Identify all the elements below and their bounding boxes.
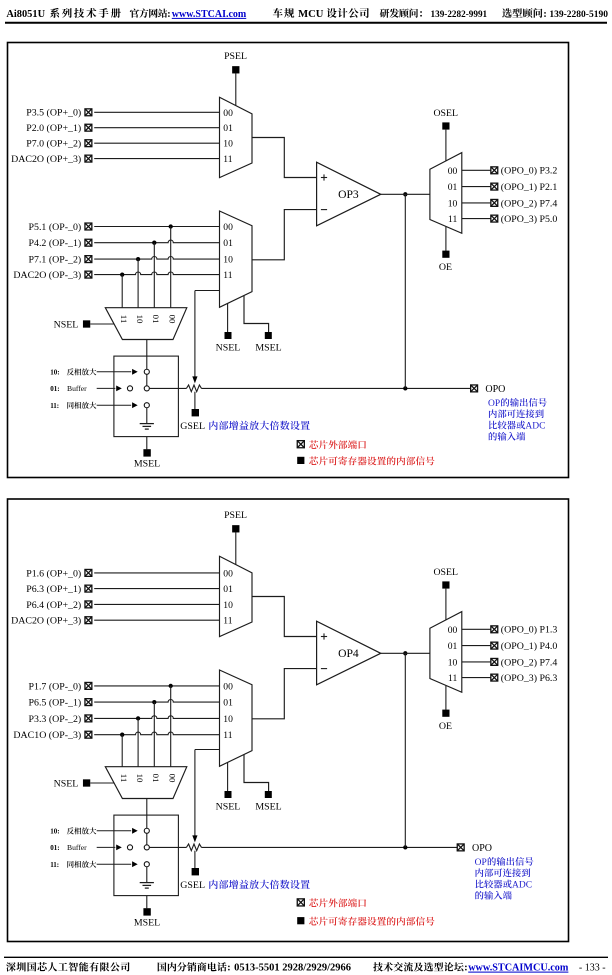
svg-text:NSEL: NSEL: [216, 342, 241, 353]
svg-text:P1.6 (OP+_0): P1.6 (OP+_0): [26, 568, 81, 579]
svg-text:PSEL: PSEL: [224, 510, 247, 521]
svg-text:11:: 11:: [50, 861, 59, 869]
svg-text:11: 11: [223, 270, 232, 281]
svg-text:00: 00: [223, 222, 233, 233]
svg-text:DAC2O (OP+_3): DAC2O (OP+_3): [11, 616, 81, 627]
svg-text:DAC2O (OP-_3): DAC2O (OP-_3): [13, 270, 81, 281]
svg-text:P7.1 (OP-_2): P7.1 (OP-_2): [29, 255, 82, 266]
svg-text:OE: OE: [439, 721, 452, 732]
svg-text:(OPO_3) P6.3: (OPO_3) P6.3: [501, 673, 558, 684]
svg-text:11: 11: [223, 616, 232, 627]
svg-text:01:: 01:: [50, 385, 59, 393]
svg-text:(OPO_2) P7.4: (OPO_2) P7.4: [501, 657, 558, 668]
svg-text:OSEL: OSEL: [433, 108, 458, 119]
svg-text:10: 10: [223, 714, 233, 725]
svg-text:01: 01: [223, 698, 233, 709]
svg-text:11: 11: [448, 673, 457, 684]
svg-text:00: 00: [167, 774, 177, 783]
svg-text:139-2282-9991: 139-2282-9991: [431, 9, 488, 19]
svg-text:MSEL: MSEL: [134, 918, 160, 929]
svg-text:00: 00: [223, 108, 233, 119]
svg-text:Ai8051U: Ai8051U: [6, 9, 45, 20]
svg-text:OP: OP: [475, 858, 487, 868]
svg-text:P4.2 (OP-_1): P4.2 (OP-_1): [29, 238, 82, 249]
svg-text:P7.0 (OP+_2): P7.0 (OP+_2): [26, 139, 81, 150]
svg-text:0513-5501 2928/2929/2966: 0513-5501 2928/2929/2966: [234, 963, 351, 974]
svg-text:OP3: OP3: [338, 188, 359, 201]
svg-text:OP4: OP4: [338, 647, 359, 660]
svg-text:NSEL: NSEL: [54, 778, 79, 789]
svg-text::: :: [464, 963, 467, 974]
svg-text:(OPO_1) P2.1: (OPO_1) P2.1: [501, 182, 558, 193]
svg-text:01: 01: [223, 238, 233, 249]
svg-text:11: 11: [223, 730, 232, 741]
svg-text:GSEL: GSEL: [180, 421, 205, 432]
svg-text:Buffer: Buffer: [67, 384, 87, 393]
svg-text:10: 10: [448, 657, 458, 668]
svg-text:10:: 10:: [50, 368, 59, 376]
svg-text:01: 01: [448, 182, 458, 193]
svg-text:(OPO_1) P4.0: (OPO_1) P4.0: [501, 641, 558, 652]
svg-text:10: 10: [135, 315, 145, 324]
svg-text:OPO: OPO: [472, 843, 492, 854]
svg-text:11: 11: [119, 774, 129, 782]
svg-text:(OPO_3) P5.0: (OPO_3) P5.0: [501, 214, 558, 225]
svg-text:00: 00: [448, 625, 458, 636]
svg-text:(OPO_0) P1.3: (OPO_0) P1.3: [501, 625, 558, 636]
svg-text:OPO: OPO: [485, 384, 505, 395]
svg-text::: :: [227, 963, 230, 974]
svg-text:MSEL: MSEL: [134, 459, 160, 470]
svg-text:11: 11: [119, 315, 129, 323]
svg-text:01: 01: [448, 641, 458, 652]
svg-text:P1.7 (OP-_0): P1.7 (OP-_0): [29, 681, 82, 692]
svg-text:01: 01: [151, 774, 161, 783]
svg-text:11:: 11:: [50, 402, 59, 410]
svg-text:- 133 -: - 133 -: [579, 963, 606, 974]
svg-text:11: 11: [223, 154, 232, 165]
svg-text:www.STCAI.com: www.STCAI.com: [172, 9, 247, 20]
svg-text:NSEL: NSEL: [54, 319, 79, 330]
svg-text:00: 00: [448, 166, 458, 177]
svg-text:www.STCAIMCU.com: www.STCAIMCU.com: [468, 963, 569, 974]
svg-text:PSEL: PSEL: [224, 51, 247, 62]
svg-text:10: 10: [223, 255, 233, 266]
svg-text:(OPO_2) P7.4: (OPO_2) P7.4: [501, 198, 558, 209]
svg-text:Buffer: Buffer: [67, 843, 87, 852]
svg-text:11: 11: [448, 214, 457, 225]
svg-text::: :: [543, 9, 546, 20]
svg-text:MSEL: MSEL: [255, 342, 281, 353]
svg-text:01:: 01:: [50, 844, 59, 852]
svg-text:01: 01: [223, 584, 233, 595]
svg-text:01: 01: [151, 315, 161, 324]
svg-text:10: 10: [448, 198, 458, 209]
svg-text:00: 00: [223, 568, 233, 579]
svg-text:ADC: ADC: [512, 881, 532, 891]
svg-text:10: 10: [223, 600, 233, 611]
svg-text:P3.5 (OP+_0): P3.5 (OP+_0): [26, 108, 81, 119]
svg-text:OE: OE: [439, 262, 452, 273]
svg-text:MCU: MCU: [298, 9, 324, 20]
svg-text:00: 00: [167, 315, 177, 324]
svg-text:00: 00: [223, 681, 233, 692]
svg-text:DAC1O (OP-_3): DAC1O (OP-_3): [13, 730, 81, 741]
svg-text:P6.3 (OP+_1): P6.3 (OP+_1): [26, 584, 81, 595]
svg-text:P5.1 (OP-_0): P5.1 (OP-_0): [29, 222, 82, 233]
svg-text:OP: OP: [488, 399, 500, 409]
svg-text:P6.5 (OP-_1): P6.5 (OP-_1): [29, 698, 82, 709]
svg-text:DAC2O (OP+_3): DAC2O (OP+_3): [11, 154, 81, 165]
svg-text:NSEL: NSEL: [216, 801, 241, 812]
svg-text:P2.0 (OP+_1): P2.0 (OP+_1): [26, 123, 81, 134]
svg-text:(OPO_0) P3.2: (OPO_0) P3.2: [501, 166, 558, 177]
svg-text:10: 10: [223, 139, 233, 150]
svg-text:139-2280-5190: 139-2280-5190: [549, 10, 608, 20]
svg-text:10: 10: [135, 774, 145, 783]
svg-text:P6.4 (OP+_2): P6.4 (OP+_2): [26, 600, 81, 611]
svg-text:OSEL: OSEL: [433, 567, 458, 578]
svg-text:P3.3 (OP-_2): P3.3 (OP-_2): [29, 714, 82, 725]
svg-text:01: 01: [223, 123, 233, 134]
svg-text::: :: [167, 9, 170, 20]
svg-text:ADC: ADC: [525, 422, 545, 432]
svg-text:GSEL: GSEL: [180, 880, 205, 891]
svg-text:10:: 10:: [50, 827, 59, 835]
svg-text:MSEL: MSEL: [255, 801, 281, 812]
